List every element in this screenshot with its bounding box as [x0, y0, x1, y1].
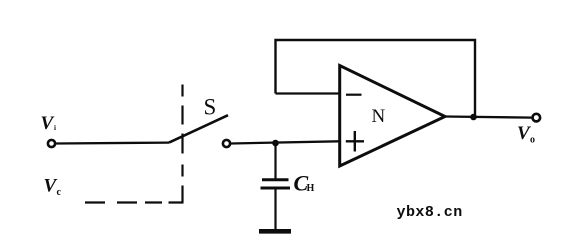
svg-text:o: o	[530, 135, 535, 146]
op-amp N triangle	[340, 66, 445, 167]
control dashed line (horizontal)	[85, 201, 184, 203]
plus sign	[346, 131, 364, 152]
label Vo	[517, 123, 535, 146]
svg-text:S: S	[204, 95, 217, 120]
junction node capacitor	[272, 140, 279, 147]
svg-text:N: N	[372, 106, 386, 127]
svg-text:H: H	[307, 183, 315, 194]
wire input	[56, 141, 170, 144]
terminal switch right	[223, 140, 230, 147]
inverting input wire	[276, 92, 340, 94]
wire to op-amp	[231, 141, 339, 143]
control dashed line (vertical)	[181, 85, 183, 203]
minus sign	[346, 94, 362, 96]
terminal Vi	[48, 140, 55, 147]
svg-text:ybx8.cn: ybx8.cn	[397, 204, 463, 221]
svg-text:V: V	[517, 123, 531, 144]
output wire	[445, 117, 533, 118]
svg-text:c: c	[57, 187, 62, 198]
terminal Vo	[533, 114, 541, 122]
svg-text:i: i	[54, 124, 56, 132]
feedback wire	[276, 40, 476, 117]
ground	[259, 229, 291, 234]
label CH	[294, 171, 315, 196]
svg-text:V: V	[44, 175, 58, 196]
label Vc	[44, 175, 62, 198]
switch S arm	[169, 115, 228, 142]
svg-text:V: V	[41, 113, 55, 134]
junction node output	[470, 114, 477, 121]
label Vi	[41, 113, 57, 134]
capacitor CH	[261, 143, 291, 230]
